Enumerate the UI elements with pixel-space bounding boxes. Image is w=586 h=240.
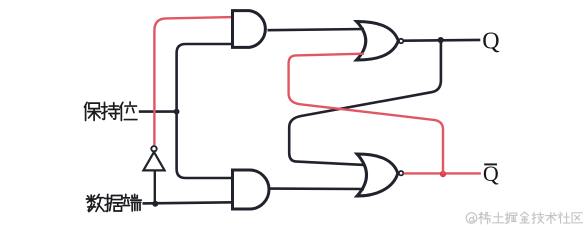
node enable junction <box>174 109 180 115</box>
inverter U5 bubble <box>151 146 156 151</box>
wire Q output <box>404 39 481 42</box>
wire bottom AND output to bottom NOR input <box>269 187 365 190</box>
wire enable vertical to both AND gates <box>177 44 233 178</box>
wire top AND output to top NOR input <box>268 29 365 30</box>
wire inverted data (red) to top AND <box>154 17 232 145</box>
wire black feedback Q to bottom NOR <box>289 40 441 165</box>
inverter U5 triangle <box>143 152 164 170</box>
node Qbar junction (red) <box>440 171 446 177</box>
wire data lead (数据端 to bottom AND) <box>143 202 233 203</box>
NOR gate U3 (top) body <box>357 21 399 60</box>
label Qbar overline <box>484 163 497 165</box>
node data junction <box>152 201 158 207</box>
watermark @稀土掘金技术社区 <box>466 212 582 224</box>
AND gate U1 (top) <box>233 11 266 48</box>
wire red feedback Qbar to top NOR <box>289 54 443 174</box>
AND gate U2 (bottom) <box>233 170 270 209</box>
wire Qbar output (red) <box>404 172 481 174</box>
wire inverter input <box>154 170 156 203</box>
svg-text:Q: Q <box>482 28 499 54</box>
NOR gate U4 (bottom) body <box>357 154 398 196</box>
NOR gate U3 bubble <box>399 39 403 43</box>
label 数据端 <box>86 194 141 211</box>
svg-text:Q: Q <box>483 161 499 186</box>
label 保持位 <box>84 102 136 121</box>
node Q junction <box>438 37 444 43</box>
wire enable lead (保持位 to node) <box>139 110 177 113</box>
NOR gate U4 bubble <box>399 171 403 175</box>
